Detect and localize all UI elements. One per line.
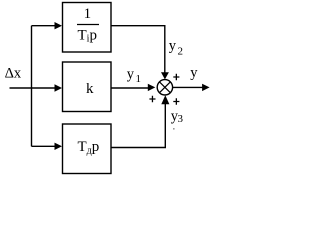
svg-text:y2: y2 <box>169 38 183 58</box>
svg-text:y3: y3 <box>171 109 184 126</box>
svg-text:1: 1 <box>84 6 92 22</box>
svg-text:y: y <box>190 65 198 81</box>
svg-text:Δx: Δx <box>5 66 22 82</box>
svg-text:y1: y1 <box>127 66 141 85</box>
svg-text:k: k <box>86 81 94 97</box>
